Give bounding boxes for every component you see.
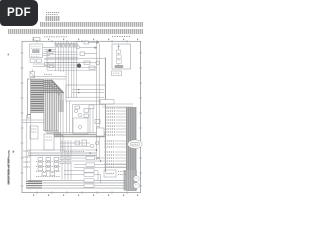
wire pair top of CN2	[31, 77, 66, 79]
vertical net wires right of matrix	[97, 44, 100, 161]
transistor Q1	[76, 46, 79, 49]
wire with arrow from Q1	[80, 47, 98, 49]
fan white corner cut	[52, 79, 64, 92]
IC U6 small box	[97, 128, 105, 136]
key switch label text rows	[36, 161, 60, 176]
net label rows right-bottom	[116, 141, 126, 167]
bus net label box L6	[84, 184, 94, 187]
bus wires into U1	[66, 90, 104, 98]
left label column text	[24, 151, 31, 167]
transistor Q6	[133, 183, 139, 189]
component box on rail top	[100, 100, 114, 105]
net label box L3	[84, 169, 94, 172]
zone numbers top	[33, 39, 138, 41]
net wires to right mid	[72, 158, 126, 168]
capacitor C2 in PS1	[116, 60, 121, 63]
long net wire upper	[44, 57, 105, 59]
connector CN2 tail	[28, 115, 31, 119]
junction dots	[89, 149, 101, 162]
capacitor C1 in PS1	[116, 55, 121, 59]
CN2 ribbon wire bundle	[31, 80, 44, 113]
connector CN3 oval	[128, 140, 142, 149]
frame zone ticks bottom	[37, 191, 127, 194]
resistor array RA1 top row	[54, 42, 78, 44]
dark bus line mid	[28, 153, 96, 155]
net label box L4	[84, 173, 94, 176]
bottom long bus wires	[28, 180, 126, 188]
capacitor C4	[79, 126, 82, 129]
battery BT1	[115, 65, 124, 68]
transistor Q3	[74, 109, 77, 112]
svg-text:CIRCUIT DIAGRAM - KEY BOARD: CIRCUIT DIAGRAM - KEY BOARD	[7, 149, 10, 184]
fan diagonal crease	[52, 80, 64, 93]
capacitor pair under X1	[30, 59, 41, 62]
resistor R5 in PS1	[116, 50, 120, 53]
U4 text	[106, 173, 115, 175]
frame zone ticks right	[139, 53, 142, 186]
bus net label box L5	[84, 179, 94, 182]
U1 to band vertical wires	[67, 101, 70, 133]
connector pin row D	[8, 29, 143, 34]
vertical wires center	[61, 100, 94, 152]
resistor R3	[84, 61, 90, 64]
CN3 inner part	[131, 142, 140, 146]
resistor R4	[89, 66, 95, 69]
diode D1 box	[84, 41, 88, 44]
frame zone ticks left	[21, 53, 24, 186]
net wires with labels above bus	[64, 171, 101, 183]
IC U3 right bus rail	[104, 58, 106, 173]
pin net name labels	[108, 108, 117, 135]
resistor R10	[95, 120, 100, 124]
bus elbow to horizontal	[45, 130, 64, 137]
bus fan lower band	[44, 112, 59, 131]
resistor R6	[75, 106, 80, 109]
wire from X1 to node	[43, 48, 56, 56]
label text R1 row	[75, 41, 83, 43]
margin mark (2)	[13, 151, 15, 153]
IC U2 small box	[44, 134, 54, 150]
schematic frame border	[22, 41, 141, 192]
node circle	[96, 61, 100, 65]
horizontal wires at left	[22, 120, 44, 122]
bottom-left connector stubs	[26, 181, 42, 190]
header tick row B	[45, 16, 60, 21]
wire R2 to bus	[85, 53, 97, 55]
transistor Q7	[97, 127, 100, 130]
label box J1	[33, 38, 40, 41]
resistor R8	[84, 114, 89, 117]
pin ticks on rail	[106, 108, 107, 135]
connector CN2 shell	[28, 79, 31, 115]
capacitor C3 below PS1	[112, 71, 122, 76]
matrix left rail	[46, 50, 48, 70]
wires bottom horizontal	[28, 143, 96, 150]
header text row A	[46, 13, 60, 15]
transistor Q4	[78, 113, 81, 116]
crystal X2	[30, 70, 35, 78]
matrix vertical wires	[56, 48, 77, 98]
frame zone ticks top	[37, 40, 127, 43]
transistor Q5	[133, 176, 139, 182]
bus horizontal run	[54, 133, 105, 138]
resistor R2	[80, 52, 85, 55]
IC U4 label box	[104, 170, 116, 177]
wires with series parts to right	[33, 63, 55, 68]
junction node diamond	[48, 49, 51, 52]
component cluster mid-bottom	[75, 140, 99, 148]
power box PS1 right top	[112, 44, 131, 69]
key switch grid rows	[38, 158, 59, 176]
bus fan base band	[44, 80, 64, 112]
connector pin row C	[40, 22, 143, 27]
resistor R9	[89, 105, 94, 108]
net label box L2	[86, 163, 95, 166]
net stub labels near bundle	[118, 171, 126, 174]
zone numbers bottom	[33, 194, 138, 196]
matrix horizontal wires	[44, 52, 97, 70]
pin rows right of rail	[117, 108, 133, 135]
page background	[0, 0, 149, 198]
net name text mid	[64, 151, 84, 153]
IC U5 lower box edges	[73, 105, 106, 134]
vertical title text CIRCUIT DIAGRAM - KEY BOARD	[7, 169, 9, 185]
bus rows merging right (upper)	[100, 104, 133, 107]
resistor pack stubs to frame	[56, 42, 77, 45]
transistor Q2	[77, 64, 81, 68]
left vertical wires	[27, 115, 31, 181]
margin mark a	[8, 54, 9, 56]
label CN1	[44, 73, 52, 75]
net label box L1	[86, 156, 95, 159]
bundle bottom widening	[124, 170, 138, 191]
resistor pair RP1	[60, 157, 70, 164]
U2 pin marks	[46, 137, 53, 140]
node plus	[117, 45, 120, 49]
right vertical bus bundle	[126, 107, 137, 191]
IC U1 box	[66, 85, 105, 101]
wire with arrow to CN	[88, 42, 99, 44]
capacitor bank box	[30, 126, 38, 139]
title text specks above frame	[44, 36, 130, 38]
wires bottom matrix vertical	[62, 140, 71, 180]
bus fan horizontal stripes upper	[44, 80, 64, 93]
resistor R7	[84, 109, 89, 113]
PS1 chain wire	[118, 45, 120, 66]
long net wire	[44, 62, 97, 64]
IC X1 block top-left	[30, 44, 43, 58]
PDF badge	[0, 0, 38, 26]
arrows on bus wires	[78, 89, 80, 91]
relay K1 inner box	[73, 118, 88, 134]
